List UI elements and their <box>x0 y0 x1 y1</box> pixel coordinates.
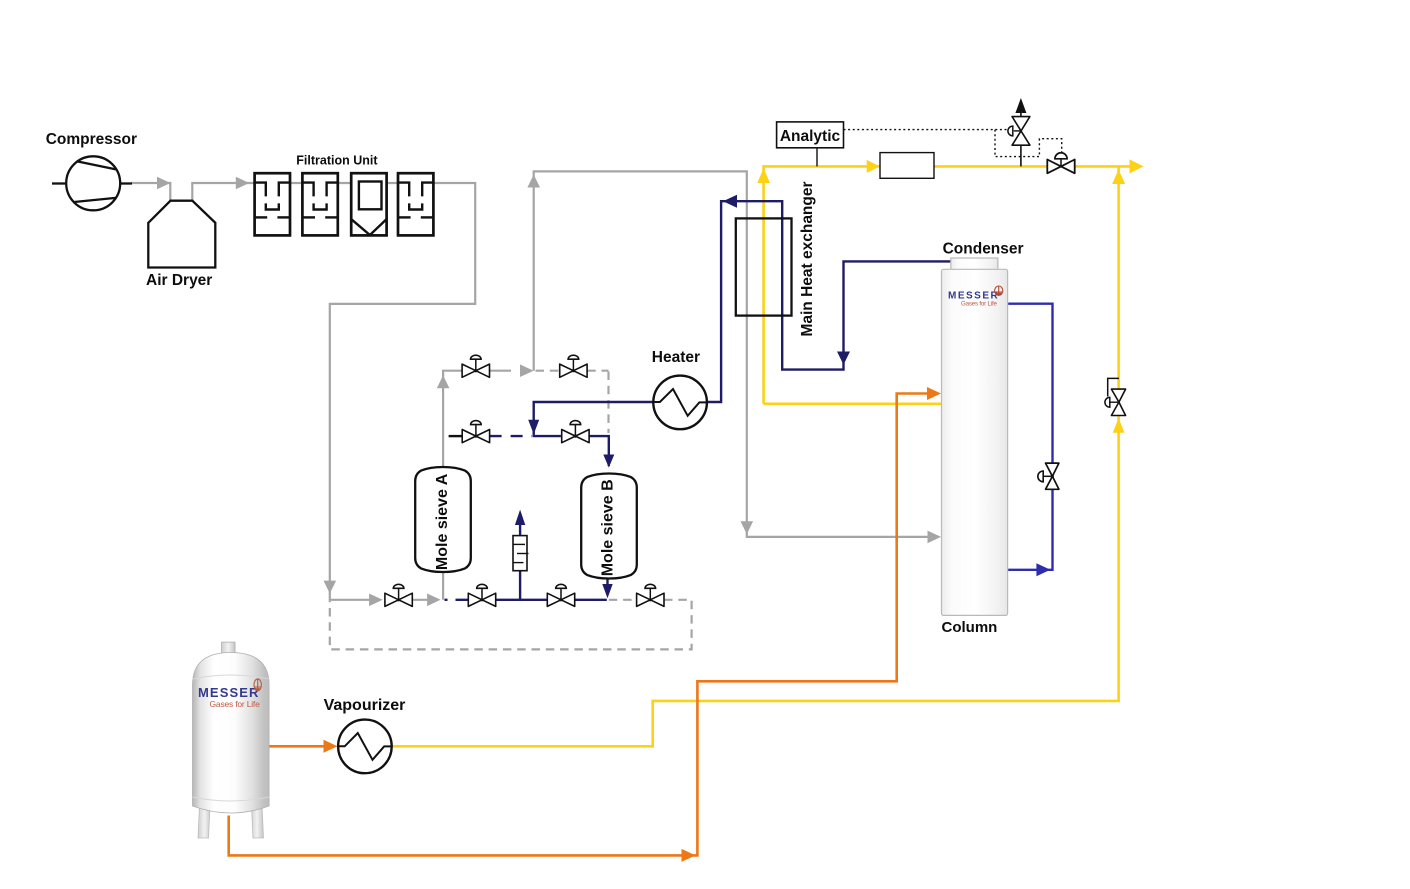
svg-text:Gases for Life: Gases for Life <box>210 699 261 709</box>
svg-text:Compressor: Compressor <box>46 131 137 148</box>
svg-text:Condenser: Condenser <box>943 240 1024 257</box>
svg-text:Mole sieve B: Mole sieve B <box>600 479 617 576</box>
svg-text:Gases for Life: Gases for Life <box>961 300 997 307</box>
svg-text:Vapourizer: Vapourizer <box>324 697 406 714</box>
svg-text:Air Dryer: Air Dryer <box>146 272 212 289</box>
svg-text:Analytic: Analytic <box>780 128 841 145</box>
svg-text:Mole sieve A: Mole sieve A <box>434 473 451 570</box>
svg-text:Filtration Unit: Filtration Unit <box>296 154 378 168</box>
svg-text:Main Heat exchanger: Main Heat exchanger <box>799 181 816 336</box>
svg-text:Column: Column <box>942 619 998 636</box>
svg-text:MESSER: MESSER <box>198 685 260 700</box>
svg-text:Heater: Heater <box>652 349 700 366</box>
